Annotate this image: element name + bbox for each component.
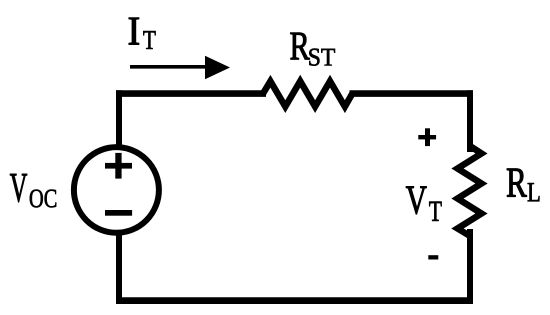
resistor R_ST bbox=[263, 81, 352, 106]
label R_ST : letter R bbox=[290, 33, 309, 59]
label R_L : subscript L bbox=[528, 183, 540, 201]
wire bottom-left vertical segment bbox=[116, 232, 122, 304]
wire top horizontal (left of R_ST) bbox=[116, 90, 266, 97]
label I_T : subscript T bbox=[143, 31, 155, 49]
resistor R_L bbox=[458, 146, 482, 236]
label V_OC : subscript OC bbox=[30, 190, 56, 208]
plus sign inside source bbox=[105, 153, 132, 179]
current arrow for I_T bbox=[130, 56, 230, 80]
label V_T : subscript T bbox=[429, 202, 441, 221]
wire right lower vertical segment bbox=[467, 229, 473, 304]
label I_T : letter I bbox=[129, 18, 139, 45]
label V_T : letter V bbox=[406, 187, 427, 215]
wire right upper vertical segment bbox=[467, 90, 473, 152]
label R_L : letter R bbox=[507, 169, 527, 197]
label V_OC : letter V bbox=[10, 174, 27, 202]
label R_ST : subscript ST bbox=[309, 49, 335, 66]
wire top-left vertical segment bbox=[116, 90, 122, 148]
wire bottom horizontal bbox=[116, 297, 473, 304]
wire top horizontal (right of R_ST) bbox=[350, 90, 474, 97]
plus polarity marker at R_L bbox=[418, 128, 436, 146]
minus polarity marker at R_L bbox=[428, 255, 438, 259]
minus sign inside source bbox=[105, 210, 132, 216]
voltage source V_OC (circle) bbox=[74, 147, 159, 233]
